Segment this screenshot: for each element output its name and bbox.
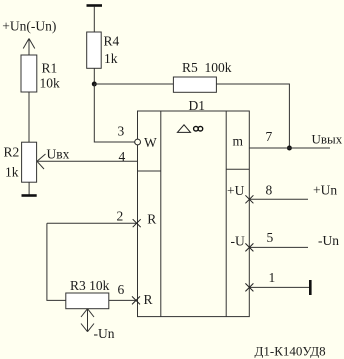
pin 6 wire bbox=[109, 299, 136, 301]
node junction output bbox=[287, 146, 292, 151]
svg-text:Д1-К140УД8: Д1-К140УД8 bbox=[255, 344, 326, 359]
wire R5 right to output node bbox=[216, 84, 289, 148]
pin 1 wire bbox=[249, 286, 310, 288]
pin 2 R label bbox=[147, 212, 156, 227]
svg-text:1k: 1k bbox=[104, 51, 118, 66]
wire R2 bottom bbox=[28, 182, 30, 194]
node -Un at R3 wiper bbox=[94, 326, 115, 341]
svg-text:7: 7 bbox=[266, 129, 273, 144]
svg-text:+U: +U bbox=[227, 183, 245, 198]
wiper arrow of R2 bbox=[37, 154, 46, 169]
pin 6 R label bbox=[144, 292, 153, 307]
pin 5 cross bbox=[245, 243, 253, 251]
pin 1 cross bbox=[245, 283, 253, 291]
svg-text:5: 5 bbox=[267, 230, 274, 245]
pin 3 label bbox=[118, 124, 125, 139]
svg-text:+Un: +Un bbox=[313, 183, 337, 198]
pin 2 cross bbox=[133, 219, 141, 227]
resistor R4 bbox=[87, 32, 120, 68]
node Uвых bbox=[312, 132, 343, 147]
svg-text:-Un: -Un bbox=[318, 233, 339, 248]
wire R4 bottom to junction bbox=[93, 68, 95, 84]
pin 8 label bbox=[266, 183, 273, 198]
node +Un(-Un) bbox=[2, 19, 56, 34]
wire junction to R5 bbox=[94, 83, 173, 85]
svg-text:-U: -U bbox=[231, 234, 245, 249]
svg-text:10k: 10k bbox=[40, 76, 61, 91]
pin 2 label bbox=[117, 209, 124, 224]
ground terminal bar below R2 bbox=[22, 194, 37, 197]
svg-text:8: 8 bbox=[266, 183, 273, 198]
pin 1 terminal bar bbox=[309, 280, 312, 295]
node Uвх bbox=[47, 147, 70, 162]
arrow up terminal of R1 bbox=[23, 39, 35, 56]
node junction R4/R5/pin3 bbox=[92, 82, 97, 87]
wire R1 to R2 bbox=[28, 92, 30, 142]
wire bar to R4 bbox=[93, 7, 95, 33]
svg-text:R2: R2 bbox=[4, 145, 20, 160]
power terminal bar above R4 bbox=[87, 4, 103, 7]
resistor R5 bbox=[173, 60, 231, 92]
svg-text:4: 4 bbox=[119, 149, 126, 164]
pin +U label bbox=[227, 183, 245, 198]
node -Un right bbox=[318, 233, 339, 248]
pin 8 wire bbox=[249, 198, 308, 200]
svg-text:1: 1 bbox=[269, 270, 276, 285]
label D1 bbox=[189, 98, 206, 113]
svg-text:6: 6 bbox=[118, 282, 125, 297]
pin 5 wire bbox=[249, 246, 308, 248]
pin W label and circle bbox=[135, 135, 157, 150]
pin 6 cross bbox=[132, 296, 140, 304]
svg-text:R: R bbox=[147, 212, 156, 227]
wire junction down to pin 3 bbox=[94, 84, 134, 142]
pin 7 label bbox=[266, 129, 273, 144]
svg-text:Uвх: Uвх bbox=[47, 147, 70, 162]
svg-text:R: R bbox=[144, 292, 153, 307]
pin 7 wire bbox=[249, 147, 330, 149]
wiper double arrow of R3 bbox=[81, 309, 94, 332]
svg-text:D1: D1 bbox=[189, 98, 206, 113]
pin m label bbox=[233, 134, 244, 149]
resistor R1 bbox=[21, 55, 60, 92]
amplifier triangle-infinity symbol bbox=[177, 125, 202, 133]
svg-text:1k: 1k bbox=[5, 165, 19, 180]
svg-text:R5 100k: R5 100k bbox=[182, 60, 232, 75]
pin 5 label bbox=[267, 230, 274, 245]
svg-text:R3 10k: R3 10k bbox=[70, 278, 110, 293]
pin 4 wire bbox=[37, 160, 138, 162]
svg-text:2: 2 bbox=[117, 209, 124, 224]
potentiometer R2 bbox=[4, 142, 37, 182]
svg-text:3: 3 bbox=[118, 124, 125, 139]
pin 8 cross bbox=[245, 195, 253, 203]
wire pin2 down to R3 bbox=[47, 223, 66, 300]
svg-text:+Un(-Un): +Un(-Un) bbox=[2, 19, 56, 34]
svg-text:-Un: -Un bbox=[94, 326, 115, 341]
pin 1 label bbox=[269, 270, 276, 285]
svg-text:Uвых: Uвых bbox=[312, 132, 343, 147]
potentiometer R3 bbox=[66, 278, 110, 309]
op-amp U1 (D1) box bbox=[138, 111, 250, 317]
label Д1-К140УД8 bbox=[255, 344, 326, 359]
svg-text:W: W bbox=[144, 135, 157, 150]
pin 2 wire bbox=[47, 222, 137, 224]
pin -U label bbox=[231, 234, 245, 249]
svg-text:m: m bbox=[233, 134, 244, 149]
svg-text:R4: R4 bbox=[104, 34, 120, 49]
pin 6 label bbox=[118, 282, 125, 297]
node +Un right bbox=[313, 183, 337, 198]
svg-text:R1: R1 bbox=[42, 61, 58, 76]
pin 4 label bbox=[119, 149, 126, 164]
